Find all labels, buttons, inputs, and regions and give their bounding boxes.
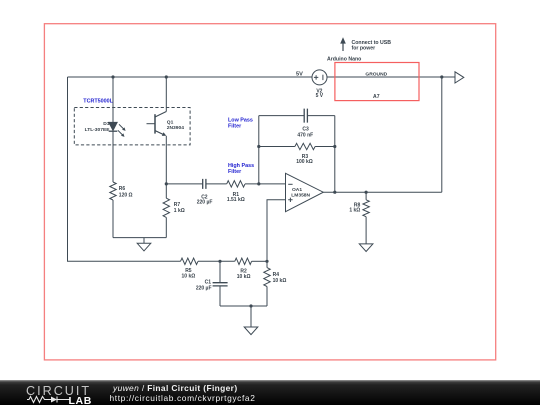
svg-text:C1: C1 [205, 280, 212, 286]
wire center ground stem [250, 306, 252, 327]
ground (left, sensor) [137, 238, 151, 251]
Arduino Nano annotation box [327, 56, 419, 100]
wire op-amp output row [323, 191, 442, 193]
wire R6 to bottom rail [112, 200, 114, 238]
svg-text:R7: R7 [174, 202, 181, 208]
wire C1 bottom lead [219, 286, 221, 306]
svg-text:GROUND: GROUND [365, 72, 387, 78]
resistor R1 1.51 kOhm [227, 181, 245, 203]
capacitor C3 470 nF [297, 109, 313, 139]
svg-text:220 µF: 220 µF [197, 200, 213, 206]
svg-text:1.51 kΩ: 1.51 kΩ [227, 197, 245, 203]
footer bar [0, 380, 540, 405]
ground (R8) [359, 244, 373, 252]
resistor R4 10 kOhm [264, 268, 287, 287]
svg-text:D1: D1 [103, 121, 110, 127]
wire C1 top lead [219, 261, 221, 282]
wire feedback left vertical [258, 116, 260, 184]
wire R7 to bottom-left rail [165, 217, 167, 237]
voltage source V2 5V [296, 70, 327, 99]
resistor R3 100 kOhm [295, 143, 315, 165]
svg-text:10 kΩ: 10 kΩ [182, 274, 196, 280]
annotation: High Pass Filter [228, 163, 254, 175]
svg-text:TCRT5000L: TCRT5000L [83, 99, 113, 105]
wire left drop to bias divider [68, 77, 181, 261]
junction bias / C1 [218, 260, 221, 263]
wire C2 to R1 [206, 183, 227, 185]
svg-text:10 kΩ: 10 kΩ [273, 278, 287, 284]
svg-text:2N3904: 2N3904 [167, 125, 184, 131]
wire node to C2 [166, 183, 202, 185]
wire feedback right vertical [334, 116, 336, 193]
wire node to R7 [165, 184, 167, 198]
schematic sheet border (red) [44, 24, 495, 360]
svg-text:Arduino Nano: Arduino Nano [327, 56, 361, 62]
svg-text:Filter: Filter [228, 169, 242, 175]
svg-text:OA1: OA1 [292, 187, 302, 193]
svg-text:A7: A7 [373, 94, 380, 100]
wire output up to A7 junction [441, 77, 443, 192]
junction top rail / Q1 [165, 75, 168, 78]
junction feedback right / R3 [333, 145, 336, 148]
annotation arrow: connect to USB [340, 37, 391, 51]
junction feedback left / R3 [257, 145, 260, 148]
svg-text:470 nF: 470 nF [297, 132, 313, 138]
svg-text:LTL-307EE: LTL-307EE [85, 127, 111, 133]
svg-text:5V: 5V [296, 71, 303, 77]
svg-text:for power: for power [352, 45, 376, 51]
wire Q1 collector [165, 77, 167, 112]
wire R2 to plus node [252, 260, 267, 262]
TCRT5000L package outline (dashed) [74, 99, 190, 145]
resistor R8 1 kOhm [349, 200, 369, 217]
junction ground rail [249, 304, 252, 307]
wire LED anode [112, 77, 114, 122]
wire C3 branch [259, 115, 335, 117]
svg-text:120 Ω: 120 Ω [119, 193, 133, 199]
junction bias / R4 (plus input) [265, 260, 268, 263]
op-amp OA1 LM358N [286, 173, 324, 211]
wire 5V top rail [68, 76, 313, 78]
LED D1 LTL-307EE [85, 121, 126, 137]
svg-text:High Pass: High Pass [228, 163, 254, 169]
svg-text:LM358N: LM358N [291, 192, 310, 198]
ground (center, divider) [244, 327, 258, 335]
svg-text:1 kΩ: 1 kΩ [174, 208, 185, 214]
junction inverting input node [257, 182, 260, 185]
wire bottom center rail [220, 305, 267, 307]
resistor R7 1 kOhm [163, 198, 185, 217]
CircuitLab logo word CIRCUIT [26, 384, 96, 398]
junction output / R8 [365, 191, 368, 194]
transistor Q1 2N3904 [147, 112, 185, 136]
wire R8 top lead [365, 192, 367, 200]
svg-text:R6: R6 [119, 186, 126, 192]
wire V2 output to A7 flag [327, 76, 455, 78]
capacitor C2 220 uF [197, 179, 213, 206]
wire R4 top lead [266, 261, 268, 267]
svg-text:100 kΩ: 100 kΩ [296, 159, 313, 165]
wire op-amp non-inverting input [267, 200, 286, 261]
svg-text:Filter: Filter [228, 123, 242, 129]
junction output / feedback [333, 191, 336, 194]
CircuitLab logo schematic squiggle [27, 395, 71, 404]
wire R3 branch [259, 146, 335, 148]
svg-text:Q1: Q1 [167, 119, 174, 125]
junction emitter node [165, 182, 168, 185]
resistor R6 120 Ohm [110, 182, 133, 200]
svg-text:220 µF: 220 µF [196, 286, 212, 292]
capacitor C1 220 uF [196, 280, 228, 292]
wire R5 to R2 [198, 260, 235, 262]
svg-text:1 kΩ: 1 kΩ [349, 208, 360, 214]
junction top rail / LED [111, 75, 114, 78]
svg-text:5 V: 5 V [316, 93, 324, 99]
CircuitLab logo word LAB [69, 395, 92, 405]
annotation: Low Pass Filter [228, 117, 253, 129]
junction A7 net [440, 75, 443, 78]
resistor R2 10 kOhm [235, 258, 252, 280]
wire Q1 emitter to node [165, 136, 167, 184]
net flag (output to A7) [455, 72, 464, 83]
svg-text:Low Pass: Low Pass [228, 117, 253, 123]
wire R1 to op-amp inverting input [245, 183, 286, 185]
svg-text:10 kΩ: 10 kΩ [237, 274, 251, 280]
resistor R5 10 kOhm [181, 258, 199, 280]
wire R8 bottom lead to ground [365, 217, 367, 244]
wire R4 bottom lead [266, 287, 268, 307]
wire bottom-left rail [113, 237, 166, 239]
wire LED cathode to R6 [112, 131, 114, 182]
